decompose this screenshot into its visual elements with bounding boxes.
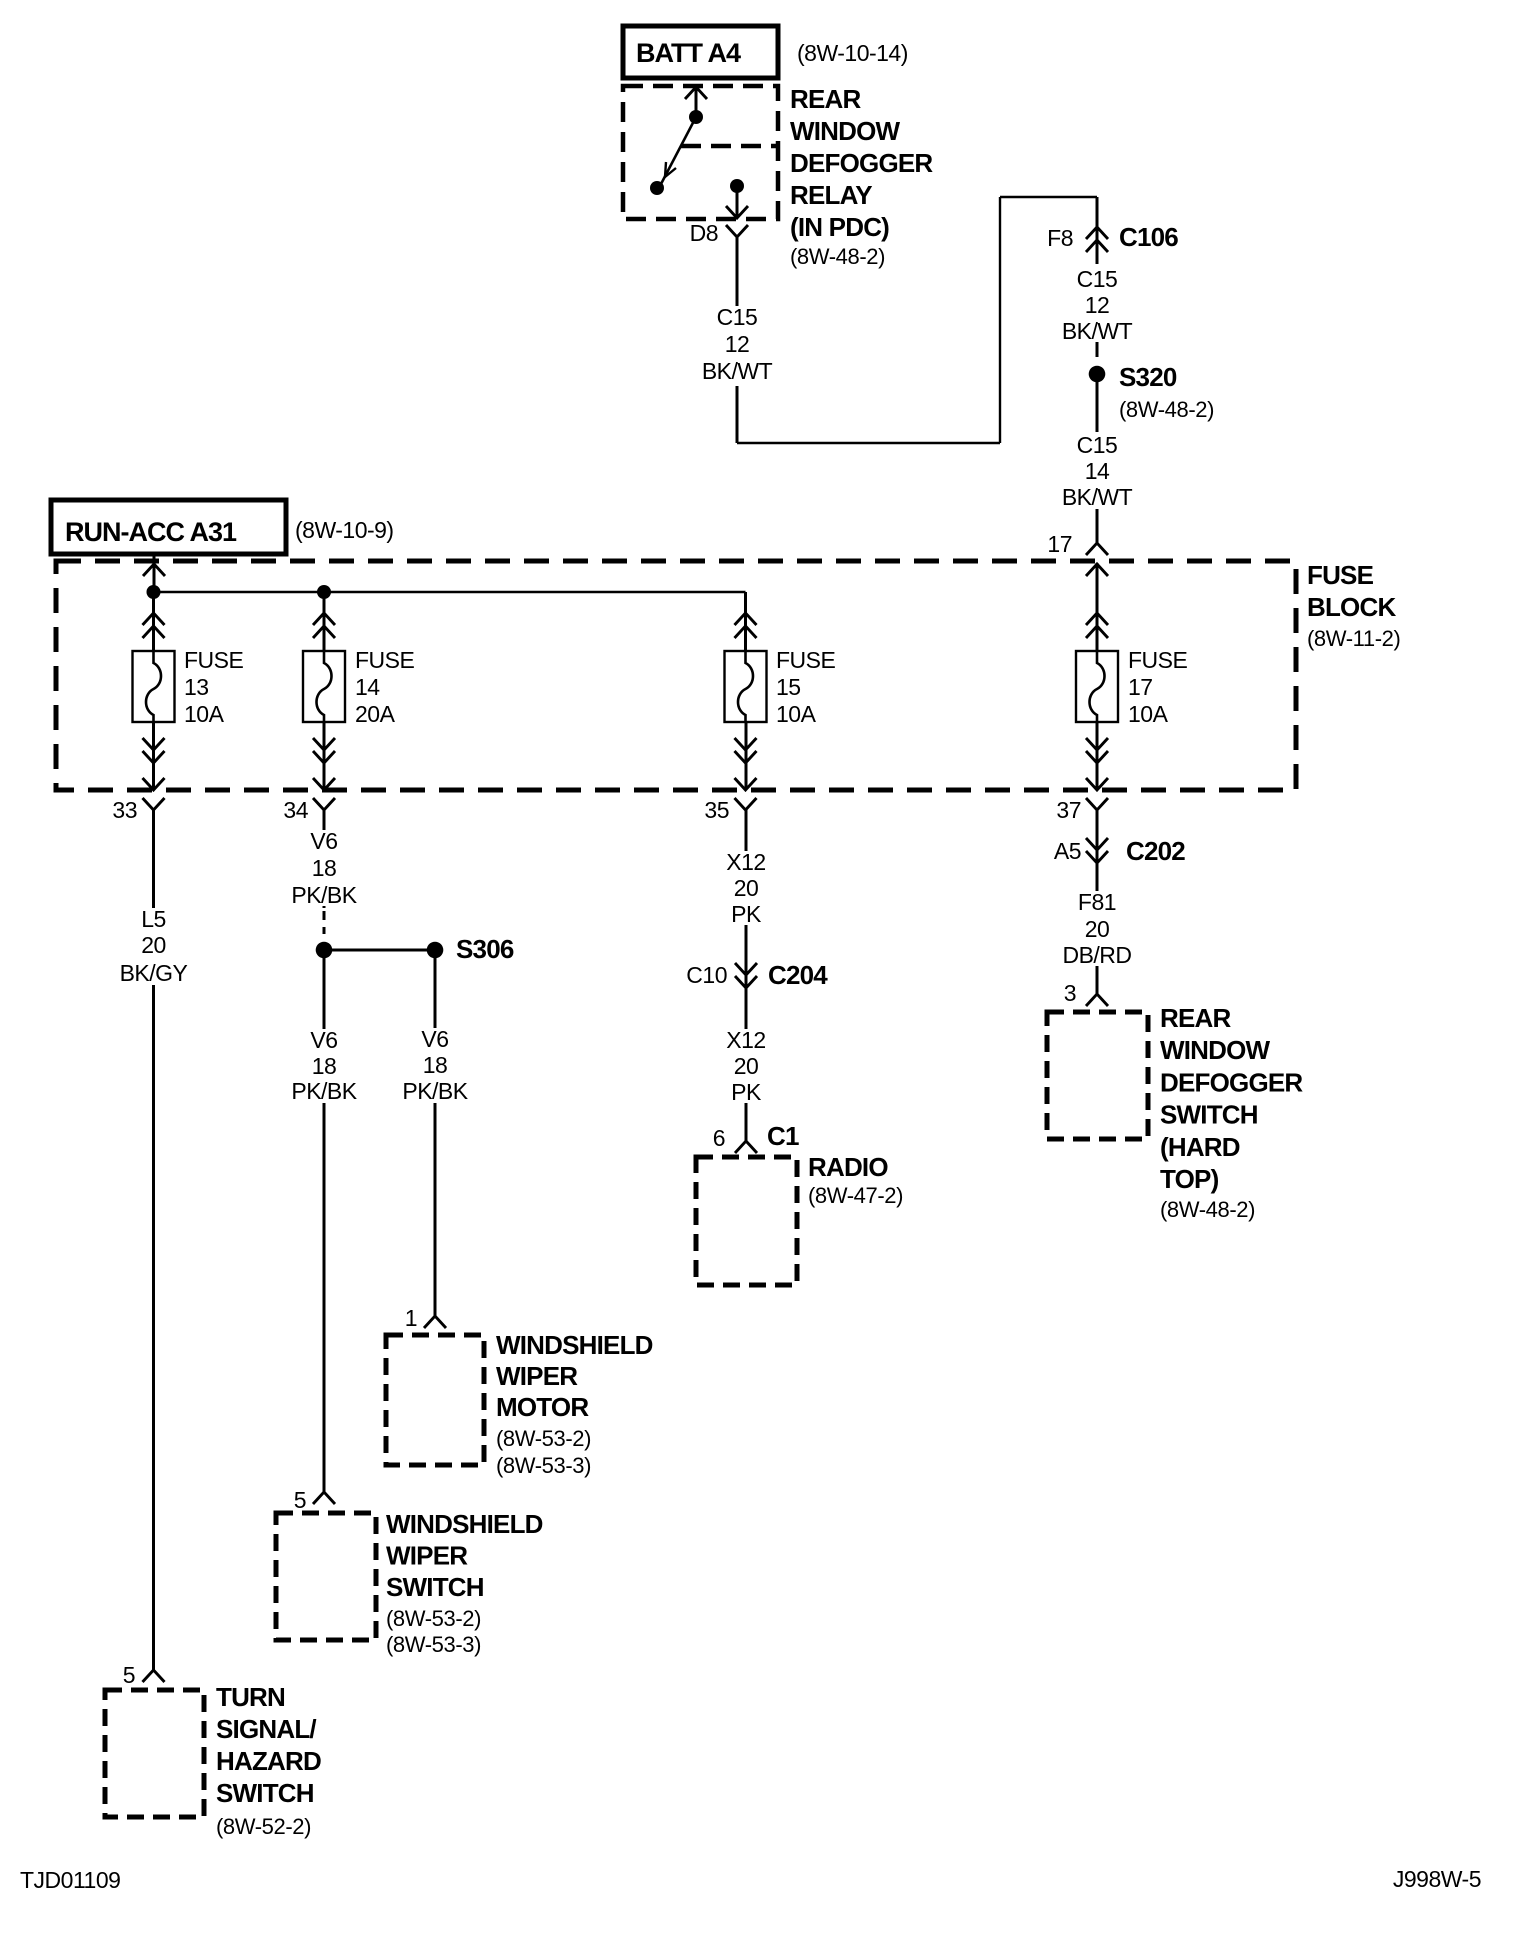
svg-text:10A: 10A (1128, 701, 1169, 727)
svg-text:A5: A5 (1054, 838, 1081, 864)
svg-text:15: 15 (776, 674, 801, 700)
svg-text:BATT A4: BATT A4 (636, 38, 741, 68)
svg-text:(8W-48-2): (8W-48-2) (790, 244, 885, 269)
svg-text:S320: S320 (1119, 362, 1177, 392)
svg-text:TJD01109: TJD01109 (20, 1867, 120, 1893)
svg-text:SWITCH: SWITCH (1160, 1100, 1258, 1130)
svg-text:12: 12 (725, 331, 750, 357)
svg-text:10A: 10A (776, 701, 817, 727)
svg-text:20: 20 (1085, 916, 1110, 942)
svg-text:REAR: REAR (790, 84, 861, 114)
svg-text:(8W-10-9): (8W-10-9) (295, 517, 394, 543)
svg-text:(HARD: (HARD (1160, 1132, 1240, 1162)
svg-text:TOP): TOP) (1160, 1164, 1219, 1194)
svg-text:V6: V6 (310, 828, 337, 854)
svg-text:BK/WT: BK/WT (1062, 318, 1133, 344)
svg-text:FUSE: FUSE (184, 647, 244, 673)
svg-text:V6: V6 (310, 1027, 337, 1053)
svg-text:DEFOGGER: DEFOGGER (1160, 1067, 1303, 1097)
svg-text:RUN-ACC A31: RUN-ACC A31 (65, 517, 237, 547)
svg-text:35: 35 (704, 797, 729, 823)
svg-text:S306: S306 (456, 934, 514, 964)
svg-text:SIGNAL/: SIGNAL/ (216, 1714, 316, 1744)
svg-text:D8: D8 (690, 220, 718, 246)
svg-text:18: 18 (312, 1053, 337, 1079)
svg-text:F8: F8 (1047, 225, 1073, 251)
svg-text:1: 1 (405, 1305, 417, 1331)
svg-text:C1: C1 (767, 1121, 799, 1151)
svg-text:C202: C202 (1126, 836, 1185, 866)
svg-text:F81: F81 (1078, 889, 1116, 915)
svg-text:(8W-53-2): (8W-53-2) (386, 1606, 481, 1631)
svg-text:WINDOW: WINDOW (790, 116, 901, 146)
svg-text:SWITCH: SWITCH (386, 1572, 484, 1602)
svg-text:DB/RD: DB/RD (1062, 942, 1131, 968)
svg-text:3: 3 (1064, 980, 1076, 1006)
svg-text:20: 20 (734, 1053, 759, 1079)
svg-text:14: 14 (355, 674, 380, 700)
svg-text:17: 17 (1128, 674, 1153, 700)
svg-text:(8W-11-2): (8W-11-2) (1307, 626, 1400, 651)
svg-text:FUSE: FUSE (776, 647, 836, 673)
svg-text:18: 18 (423, 1052, 448, 1078)
svg-text:14: 14 (1085, 458, 1110, 484)
svg-text:20A: 20A (355, 701, 396, 727)
svg-text:(8W-47-2): (8W-47-2) (808, 1183, 903, 1208)
svg-text:(8W-48-2): (8W-48-2) (1119, 397, 1214, 422)
svg-text:37: 37 (1056, 797, 1081, 823)
svg-text:BLOCK: BLOCK (1307, 592, 1396, 622)
svg-text:5: 5 (294, 1487, 306, 1513)
svg-text:WIPER: WIPER (386, 1541, 468, 1571)
svg-text:FUSE: FUSE (355, 647, 415, 673)
svg-text:V6: V6 (421, 1026, 448, 1052)
svg-text:WIPER: WIPER (496, 1361, 578, 1391)
svg-text:PK/BK: PK/BK (291, 882, 357, 908)
svg-text:BK/WT: BK/WT (1062, 484, 1133, 510)
svg-text:33: 33 (112, 797, 137, 823)
svg-text:20: 20 (141, 932, 166, 958)
svg-text:13: 13 (184, 674, 209, 700)
svg-text:FUSE: FUSE (1307, 560, 1374, 590)
svg-text:C15: C15 (1077, 432, 1118, 458)
svg-text:PK: PK (731, 1079, 762, 1105)
svg-text:DEFOGGER: DEFOGGER (790, 148, 933, 178)
svg-text:6: 6 (713, 1125, 725, 1151)
svg-text:(8W-53-3): (8W-53-3) (386, 1632, 481, 1657)
svg-text:J998W-5: J998W-5 (1393, 1866, 1481, 1892)
svg-text:10A: 10A (184, 701, 225, 727)
svg-text:SWITCH: SWITCH (216, 1778, 314, 1808)
svg-text:HAZARD: HAZARD (216, 1746, 321, 1776)
svg-text:RELAY: RELAY (790, 180, 872, 210)
svg-text:BK/WT: BK/WT (702, 358, 773, 384)
svg-text:PK: PK (731, 901, 762, 927)
svg-text:C106: C106 (1119, 222, 1178, 252)
svg-text:L5: L5 (141, 906, 166, 932)
svg-text:REAR: REAR (1160, 1003, 1231, 1033)
svg-text:C15: C15 (1077, 266, 1118, 292)
svg-text:(8W-52-2): (8W-52-2) (216, 1814, 311, 1839)
svg-text:X12: X12 (726, 849, 765, 875)
svg-text:C15: C15 (717, 304, 758, 330)
svg-text:WINDSHIELD: WINDSHIELD (386, 1509, 543, 1539)
svg-text:(8W-53-3): (8W-53-3) (496, 1453, 591, 1478)
svg-text:FUSE: FUSE (1128, 647, 1188, 673)
svg-text:C10: C10 (686, 962, 727, 988)
svg-text:20: 20 (734, 875, 759, 901)
svg-text:X12: X12 (726, 1027, 765, 1053)
svg-text:(8W-48-2): (8W-48-2) (1160, 1197, 1255, 1222)
svg-text:(IN PDC): (IN PDC) (790, 212, 889, 242)
svg-text:C204: C204 (768, 960, 828, 990)
svg-text:5: 5 (123, 1662, 135, 1688)
svg-text:WINDSHIELD: WINDSHIELD (496, 1330, 653, 1360)
svg-text:BK/GY: BK/GY (120, 960, 188, 986)
svg-text:TURN: TURN (216, 1682, 285, 1712)
svg-text:PK/BK: PK/BK (291, 1078, 357, 1104)
svg-text:RADIO: RADIO (808, 1152, 888, 1182)
svg-text:(8W-10-14): (8W-10-14) (797, 40, 908, 66)
svg-text:17: 17 (1047, 531, 1072, 557)
svg-text:PK/BK: PK/BK (402, 1078, 468, 1104)
svg-text:MOTOR: MOTOR (496, 1392, 589, 1422)
svg-text:34: 34 (283, 797, 308, 823)
svg-text:12: 12 (1085, 292, 1110, 318)
svg-text:18: 18 (312, 855, 337, 881)
svg-text:(8W-53-2): (8W-53-2) (496, 1426, 591, 1451)
svg-text:WINDOW: WINDOW (1160, 1035, 1271, 1065)
